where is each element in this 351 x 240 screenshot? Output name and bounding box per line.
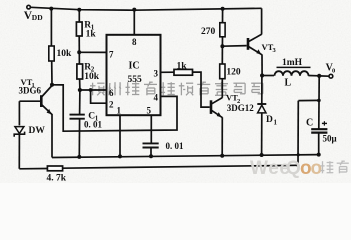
svg-text:C: C: [306, 118, 313, 129]
svg-text:1k: 1k: [86, 29, 97, 39]
wire feedback horizontal: [298, 99, 319, 101]
svg-text:7: 7: [109, 50, 114, 60]
node C1 ground: [77, 155, 81, 159]
svg-text:1: 1: [274, 119, 278, 127]
node feedback/rail crossing blob: [297, 153, 300, 156]
svg-text:Q: Q: [286, 158, 301, 179]
wire pin 8: [133, 10, 135, 35]
IC 555 box: [107, 35, 161, 116]
transistor VT1 3DG6: [19, 77, 53, 115]
node top rail / 10k: [49, 7, 53, 11]
svg-text:10k: 10k: [84, 72, 100, 82]
svg-text:3DG12: 3DG12: [227, 103, 255, 113]
svg-text:3: 3: [154, 69, 159, 79]
svg-text:4: 4: [154, 93, 159, 103]
wire VT1 emitter down: [51, 114, 53, 158]
wire pin 6: [80, 89, 107, 91]
svg-text:L: L: [285, 78, 292, 89]
watermark center gray CJK text: [90, 82, 263, 96]
wire C to ground: [318, 133, 320, 155]
svg-text:4. 7k: 4. 7k: [47, 174, 67, 184]
wire pin 5 down: [150, 115, 152, 143]
wire lower feedback line right: [63, 165, 299, 168]
wire pin 1 to ground: [119, 115, 121, 156]
inductor L 1mH: [262, 58, 319, 89]
svg-text:5: 5: [147, 106, 152, 116]
node VT3 base junction: [220, 44, 224, 48]
resistor 4.7k: [47, 166, 67, 184]
svg-text:120: 120: [226, 68, 241, 78]
wire feedback vertical: [297, 101, 299, 166]
resistor 270: [201, 23, 225, 37]
svg-text:3DG6: 3DG6: [19, 86, 42, 96]
wire ground rail: [52, 155, 319, 158]
node pin1 ground: [118, 154, 122, 158]
wire VT2 emitter to ground: [221, 117, 223, 155]
wire VT1 base: [19, 100, 41, 102]
resistor 120: [220, 64, 241, 79]
node output: [317, 74, 321, 78]
svg-text:6: 6: [109, 88, 114, 98]
terminal Vo: [326, 63, 336, 79]
wire C1 to ground rail: [78, 119, 80, 157]
node switch (emitter/D1/L): [260, 73, 264, 77]
resistor 1k (pin3): [174, 62, 193, 76]
svg-text:DD: DD: [32, 13, 43, 22]
node trigger/threshold: [78, 88, 82, 92]
wire 270 to node: [221, 37, 223, 46]
wire junction down to 120: [221, 46, 223, 64]
svg-text:0. 01: 0. 01: [166, 141, 185, 151]
wire pin 2 jog: [89, 88, 93, 92]
wire DW down to corner: [18, 134, 20, 169]
node VT1 collector: [50, 83, 54, 87]
node feedback lower corner: [296, 164, 299, 167]
svg-text:8: 8: [132, 37, 137, 47]
wire to Vo: [319, 75, 329, 77]
wire R2 down to node: [79, 79, 81, 90]
node C ground corner: [317, 153, 321, 157]
wire VT2 collector up to 120: [221, 79, 223, 98]
svg-text:1: 1: [117, 106, 122, 116]
svg-text:1mH: 1mH: [282, 58, 303, 68]
svg-text:2: 2: [109, 100, 114, 110]
node top rail / R1: [77, 8, 81, 12]
resistor R2 10k: [77, 62, 100, 82]
wire top rail: [31, 7, 262, 10]
node 0.01 ground: [149, 154, 153, 158]
transistor VT3: [248, 34, 277, 55]
svg-text:10k: 10k: [57, 49, 73, 59]
resistor R1 1k: [76, 20, 96, 39]
svg-text:Wee: Wee: [250, 158, 291, 179]
wire R1 to R2: [78, 36, 80, 64]
node D1 ground: [260, 153, 264, 157]
wire R1 drop: [78, 10, 80, 22]
wire lower feedback line left: [19, 168, 47, 170]
svg-text:D: D: [266, 115, 273, 125]
zener diode DW: [14, 126, 45, 137]
svg-text:1k: 1k: [177, 62, 188, 72]
svg-text:0: 0: [332, 67, 335, 74]
wire VT3 base: [222, 45, 246, 48]
svg-text:0. 01: 0. 01: [84, 120, 103, 130]
wire VT3 collector to rail: [261, 8, 263, 34]
node feedback tap: [317, 99, 321, 103]
terminal VDD: [24, 5, 43, 22]
wire node to C1: [79, 90, 81, 115]
wire VT3 emitter down: [261, 55, 263, 76]
wire pin 3 out: [161, 71, 175, 73]
wire output column down: [318, 76, 320, 129]
capacitor 0.01 (pin5): [143, 141, 185, 151]
wire 10k drop: [50, 9, 52, 46]
diode D1: [257, 76, 277, 156]
node pin7 junction: [77, 50, 81, 54]
svg-text:50μ: 50μ: [323, 134, 337, 144]
resistor 10k (left): [49, 46, 72, 61]
svg-text:DW: DW: [29, 126, 46, 136]
capacitor C1 0.01: [70, 111, 103, 129]
wire 270 drop: [222, 9, 224, 23]
wire to pin 7: [79, 51, 106, 53]
svg-text:270: 270: [201, 27, 216, 37]
node top rail 270: [221, 7, 225, 11]
node top rail pin 8: [132, 8, 136, 12]
wire 0.01 to ground: [150, 148, 152, 157]
wire pin 4 reset path: [52, 85, 177, 131]
transistor VT2 3DG12: [211, 93, 254, 118]
svg-text:o: o: [311, 158, 323, 179]
wire base to DW: [18, 101, 20, 125]
capacitor C 50u: [306, 118, 337, 144]
svg-text:IC: IC: [129, 60, 140, 71]
watermark weeqoo: [250, 158, 349, 179]
svg-text:555: 555: [128, 75, 143, 85]
node VT2 emitter ground: [220, 154, 224, 158]
wire 1k to VT2 base: [193, 72, 210, 107]
wire 10k to VT1 collector: [51, 61, 53, 85]
